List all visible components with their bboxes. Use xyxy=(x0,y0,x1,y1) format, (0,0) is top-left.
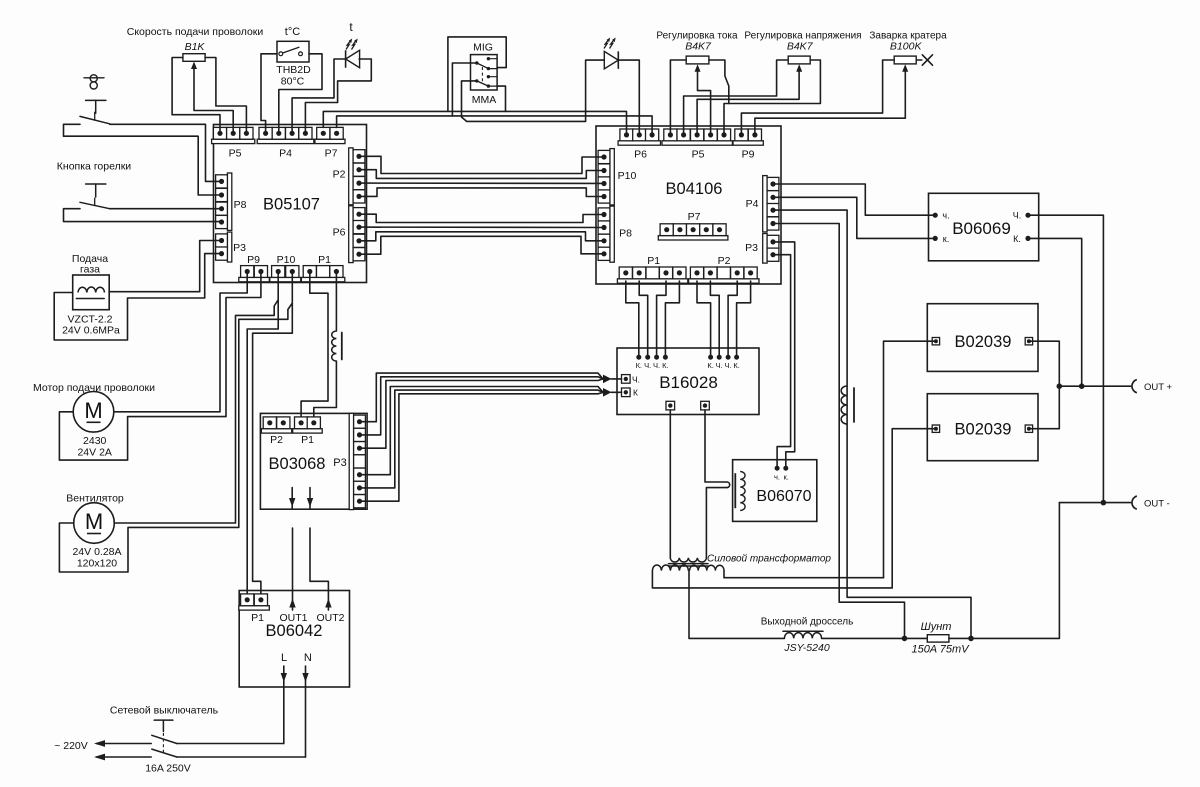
torch symbol (two circles) xyxy=(84,75,104,89)
wire B02039 lower input from secondary xyxy=(892,429,936,588)
wire transformer center tap to choke xyxy=(689,571,784,639)
svg-text:Кнопка горелки: Кнопка горелки xyxy=(57,161,132,173)
output choke JSY-5240 xyxy=(783,631,830,654)
LED MIG/MMA indicator xyxy=(604,38,618,69)
wire gas valve return loop to P3.2 xyxy=(54,254,221,340)
wire B06069 К to OUT+ node xyxy=(1028,238,1082,386)
torch button pole 2 (switch) xyxy=(80,184,110,209)
svg-text:B05107: B05107 xyxy=(263,196,320,214)
cable arrow into B16028 Ч xyxy=(603,375,622,384)
svg-text:B1K: B1K xyxy=(185,41,206,53)
wire B1K right terminal to P5.3 xyxy=(205,58,246,134)
potentiometer B4K7 (current) xyxy=(685,41,712,72)
connector P1 (B04106) with label xyxy=(617,255,687,283)
connector P2 (B04106) with label xyxy=(689,255,759,283)
svg-text:B06070: B06070 xyxy=(756,488,811,505)
fan motor M with ratings xyxy=(72,503,121,570)
wire B05107 P7.2 to B04106 P6.3 xyxy=(337,116,652,135)
board B16028 xyxy=(617,348,759,415)
wire bundle P6-P8 line 2 xyxy=(359,226,604,228)
svg-text:P1: P1 xyxy=(301,434,314,446)
svg-text:P9: P9 xyxy=(247,254,260,266)
label Скорость подачи проволоки xyxy=(127,26,264,38)
svg-text:B06042: B06042 xyxy=(266,622,323,640)
wire current sense P4.3 to shunt right xyxy=(773,210,971,638)
wire B4K7-U left to P5.2 xyxy=(684,60,789,135)
wire torch switch 1 contact to P8.1 xyxy=(110,124,222,181)
svg-text:P10: P10 xyxy=(277,254,296,266)
svg-text:MMA: MMA xyxy=(472,94,497,106)
shunt 150A 75mV xyxy=(911,635,970,656)
thermostat THB2D with t°C and 80°C labels xyxy=(276,26,311,88)
B02039 lower left pin xyxy=(932,425,939,432)
wire B100K wiper to P9.2 xyxy=(755,69,905,135)
inductor ferrite bar xyxy=(341,333,343,360)
connector P5 (B05107) with label xyxy=(212,127,255,159)
power transformer primary winding xyxy=(670,558,706,562)
B16028 top pins group 1 with К.Ч.Ч.К. labels xyxy=(636,355,669,370)
wire current sense P4.4 to shunt left xyxy=(773,224,905,639)
B16028 bottom pin 1 xyxy=(666,401,675,410)
wire P9.1 to wire feed motor + xyxy=(114,274,247,412)
svg-text:B4K7: B4K7 xyxy=(787,41,814,53)
connector P3 (B05107) with label xyxy=(216,232,246,262)
svg-text:N: N xyxy=(304,652,312,664)
svg-text:газа: газа xyxy=(80,264,100,276)
B06042 OUT1 input arrow with label xyxy=(279,528,307,624)
mains arrow 1 xyxy=(94,740,151,747)
inductor ferrite bar (sense wire) xyxy=(853,388,855,422)
module B02039 upper xyxy=(927,304,1038,372)
svg-text:M: M xyxy=(84,398,102,423)
junction dot OUT- xyxy=(1101,500,1107,506)
mains switch 16A 250V xyxy=(145,720,191,774)
svg-text:B03068: B03068 xyxy=(269,455,326,473)
wire mains N to switch xyxy=(177,756,306,758)
svg-text:P1: P1 xyxy=(647,255,660,267)
wire MIG/MMA MMA contact down xyxy=(497,86,505,111)
svg-text:P3: P3 xyxy=(745,242,758,254)
svg-text:B02039: B02039 xyxy=(955,333,1012,351)
svg-text:Ч.: Ч. xyxy=(644,361,651,370)
wire B04106 P3.2 to B06070 ч xyxy=(773,255,791,469)
label Кнопка горелки xyxy=(57,161,132,173)
B06042 OUT2 input arrow with label xyxy=(310,528,345,624)
wire B04106 P3.1 to B06070 к xyxy=(773,242,795,468)
svg-text:P2: P2 xyxy=(718,255,731,267)
label Мотор подачи проволоки xyxy=(33,382,155,394)
svg-text:к.: к. xyxy=(943,234,949,244)
svg-text:OUT1: OUT1 xyxy=(279,612,307,624)
connector P7 (B04106) with label xyxy=(658,211,728,240)
svg-text:B02039: B02039 xyxy=(955,421,1012,439)
junction dot OUT+ B06069 xyxy=(1079,383,1085,389)
svg-text:к.: к. xyxy=(784,473,789,482)
connector P2 (B03068) with label xyxy=(261,417,291,446)
junction dot shunt right xyxy=(968,636,974,642)
wire B02039 lower output to OUT+ node xyxy=(1029,386,1059,429)
B02039 lower right pin xyxy=(1025,425,1032,432)
label Заварка кратера xyxy=(869,30,947,41)
module B02039 lower xyxy=(927,394,1038,461)
svg-text:Ч.: Ч. xyxy=(632,374,640,384)
power transformer core xyxy=(669,564,709,566)
wire B1K wiper to P5.2 xyxy=(194,69,233,134)
svg-text:К.: К. xyxy=(1013,234,1021,244)
board B06069 xyxy=(929,193,1039,260)
wire LED t anode to P4.4 xyxy=(305,59,371,133)
svg-text:Сетевой выключатель: Сетевой выключатель xyxy=(110,705,219,717)
wire B05107 P1.1 to B03068 P1.1 xyxy=(301,274,328,416)
svg-text:THB2D: THB2D xyxy=(276,64,311,76)
wire P5.5 bus xyxy=(724,60,820,135)
svg-text:ч.: ч. xyxy=(942,211,949,221)
svg-text:К: К xyxy=(633,388,638,398)
wire torch switch 2 contact to P8.3 xyxy=(110,208,222,210)
LED t (wire feed indicator) with label xyxy=(346,20,360,68)
wire P10.1 branch to B06042 P1.1 xyxy=(247,300,278,594)
svg-text:B16028: B16028 xyxy=(659,373,718,392)
svg-text:К.: К. xyxy=(662,361,668,370)
B06070 top pins ч к xyxy=(774,466,789,482)
svg-text:24V 2A: 24V 2A xyxy=(77,447,111,459)
svg-text:Силовой трансформатор: Силовой трансформатор xyxy=(707,553,831,565)
connector P4 (B05107) with label xyxy=(257,127,314,159)
B02039 upper left pin xyxy=(932,338,939,345)
label ~ 220V xyxy=(54,740,88,752)
svg-text:JSY-5240: JSY-5240 xyxy=(783,642,829,654)
wire B4K7-I right to P5.5 bus xyxy=(709,60,729,104)
wire B03068 P3.1 bundle xyxy=(360,373,604,422)
svg-text:B06069: B06069 xyxy=(952,219,1011,238)
svg-text:Скорость подачи проволоки: Скорость подачи проволоки xyxy=(127,26,264,38)
wire P2.4 to B16028 xyxy=(728,281,737,357)
svg-text:B100K: B100K xyxy=(890,41,923,53)
label Сетевой выключатель xyxy=(110,705,219,717)
svg-text:P5: P5 xyxy=(229,148,242,160)
wire bundle P2-P10 line 2 xyxy=(359,170,604,179)
B06042 N output arrow with label xyxy=(302,652,312,757)
power transformer secondary winding xyxy=(652,565,724,571)
wire mains L to switch xyxy=(177,743,284,745)
svg-text:К.: К. xyxy=(707,361,713,370)
connector P1 (B05107) with label xyxy=(301,254,344,282)
board B04106 xyxy=(596,126,781,284)
switch MIG/MMA with labels xyxy=(471,42,498,107)
svg-text:P1: P1 xyxy=(318,254,331,266)
svg-text:80°C: 80°C xyxy=(281,76,305,88)
wire P1.4 to B16028 xyxy=(657,281,666,357)
wire P9.2 to wire feed motor return loop xyxy=(59,274,261,460)
svg-text:P1: P1 xyxy=(251,612,264,624)
connector P10 (B04106) with label xyxy=(598,149,636,205)
inductor on current sense wire xyxy=(841,386,847,424)
wire B05107 P7.1 to B04106 P6.1 xyxy=(323,111,626,134)
wire B03068 P3.5 bundle xyxy=(360,387,604,475)
board B06042 xyxy=(239,591,349,688)
svg-text:M: M xyxy=(85,509,103,534)
svg-text:24V 0.28A: 24V 0.28A xyxy=(72,546,121,558)
wire bundle P6-P8 line 3 xyxy=(359,232,604,241)
connector P9 (B04106) with label xyxy=(733,129,763,161)
connector P3 (B04106) with label xyxy=(745,234,779,264)
B06070 sensor coil with core bar xyxy=(735,472,745,511)
label Регулировка тока xyxy=(656,30,738,41)
svg-text:B4K7: B4K7 xyxy=(685,41,712,53)
wire transformer secondary right end xyxy=(724,571,884,578)
svg-text:Ч.: Ч. xyxy=(1013,211,1022,221)
wire torch switch 2 pole return to P8.4 xyxy=(64,209,222,222)
connector P6 (B05107) with label xyxy=(333,206,365,263)
wire MIG/MMA pole 1 xyxy=(452,63,476,116)
wire choke to shunt xyxy=(822,637,928,639)
wire bundle P6-P8 line 4 xyxy=(359,236,604,254)
connector P10 (B05107) with label xyxy=(270,254,301,282)
wire transformer secondary left end xyxy=(652,571,892,588)
svg-text:Ч.: Ч. xyxy=(716,361,723,370)
connector P2 (B05107) with label xyxy=(333,148,365,205)
svg-text:Шунт: Шунт xyxy=(921,621,952,633)
wire B02039 upper output to OUT+ node xyxy=(1029,341,1059,386)
svg-text:t°C: t°C xyxy=(285,26,300,38)
wire P1.2 to B16028 xyxy=(639,281,648,357)
svg-text:B04106: B04106 xyxy=(666,180,723,198)
label Выходной дроссель xyxy=(761,617,854,628)
svg-text:P5: P5 xyxy=(692,149,705,161)
wire B1K left terminal to P5.1 xyxy=(172,58,220,134)
svg-text:120x120: 120x120 xyxy=(77,558,117,570)
label Подача газа xyxy=(72,253,108,276)
svg-text:P8: P8 xyxy=(619,228,632,240)
wire gas valve coil to P3.1 xyxy=(109,241,221,292)
wire bundle P2-P10 line 4 xyxy=(359,188,604,197)
wire B06069 Ч to OUT- node xyxy=(1028,215,1103,502)
connector P1 (B03068) with label xyxy=(293,417,323,446)
svg-text:24V 0.6MPa: 24V 0.6MPa xyxy=(62,325,120,337)
gas valve VZCT-2.2 with labels xyxy=(62,275,120,337)
wire P2.5 to B16028 xyxy=(737,281,751,357)
svg-text:P9: P9 xyxy=(742,149,755,161)
wire P1.5 to B16028 xyxy=(665,281,679,357)
wire B02039 upper input from secondary xyxy=(884,341,936,578)
B02039 upper right pin xyxy=(1025,338,1032,345)
board B05107 xyxy=(214,125,367,283)
label Регулировка напряжения xyxy=(744,30,861,41)
svg-text:Ч.: Ч. xyxy=(725,361,732,370)
wire bundle P2-P10 line 1 xyxy=(359,156,604,173)
wire OUT+ bus xyxy=(1059,385,1130,387)
junction dot OUT+ modules xyxy=(1057,383,1063,389)
svg-text:16A 250V: 16A 250V xyxy=(145,763,191,775)
wire B03068 P3.7 bundle xyxy=(360,392,604,501)
torch button pole 1 (switch) xyxy=(80,100,110,123)
svg-text:P7: P7 xyxy=(325,148,338,160)
wire B16028 bottom pin2 through current sensor to primary xyxy=(705,410,730,558)
wire bundle P2-P10 line 3 xyxy=(359,182,604,184)
label Вентилятор xyxy=(66,493,124,505)
connector P7 (B05107) with label xyxy=(315,127,345,159)
svg-text:К.: К. xyxy=(636,361,642,370)
svg-text:~ 220V: ~ 220V xyxy=(54,740,88,752)
connector P5 (B04106) with label xyxy=(662,129,732,161)
wire B16028 bottom pin1 to transformer primary xyxy=(669,410,671,558)
svg-text:P4: P4 xyxy=(746,198,759,210)
wire B4K7-U wiper to P5.3 xyxy=(697,69,799,135)
svg-text:OUT2: OUT2 xyxy=(316,612,344,624)
B06069 right pin Ч xyxy=(1013,211,1031,221)
svg-text:P6: P6 xyxy=(634,149,647,161)
svg-text:OUT -: OUT - xyxy=(1144,498,1170,509)
wire OUT- bus xyxy=(1059,502,1130,504)
B03068 output arrow 1 (down) xyxy=(289,488,295,508)
wire LED t cathode to P4.3 xyxy=(292,59,346,133)
connector P8 (B04106) with label xyxy=(598,206,632,262)
wire LED cathode to B04106 P6.2 xyxy=(618,60,639,135)
svg-text:P10: P10 xyxy=(618,170,637,182)
svg-text:P7: P7 xyxy=(688,211,701,223)
svg-text:OUT +: OUT + xyxy=(1144,382,1173,393)
connector P8 (B05107) with label xyxy=(216,173,247,230)
connector P3 (B03068) with label xyxy=(333,413,365,509)
wire B4K7-I wiper to P5.4 xyxy=(698,69,711,135)
B06042 L output arrow with label xyxy=(281,652,287,744)
wire THB2D left to P4.1 xyxy=(261,54,277,134)
potentiometer B100K with unconnected X terminal xyxy=(890,41,933,72)
wire P1.1 to B16028 xyxy=(626,281,639,357)
svg-text:150A 75mV: 150A 75mV xyxy=(911,644,970,656)
wire feed motor M with ratings xyxy=(73,392,114,459)
wire P4.1 to B06069 ч xyxy=(773,184,935,215)
wire B03068 P3.3 bundle xyxy=(360,379,604,448)
connector P6 (B04106) with label xyxy=(618,129,660,161)
svg-text:Ч.: Ч. xyxy=(653,361,660,370)
svg-text:P2: P2 xyxy=(270,434,283,446)
svg-text:P2: P2 xyxy=(333,169,346,181)
wire B100K left to P9.1 xyxy=(741,60,894,135)
svg-text:Выходной дроссель: Выходной дроссель xyxy=(761,617,854,628)
B06069 left pin ч xyxy=(933,211,950,221)
board B06070 (current sensor) xyxy=(733,460,817,522)
svg-text:P4: P4 xyxy=(279,148,292,160)
connector P4 (B04106) with label xyxy=(746,176,779,232)
connector P1 (B06042) with label xyxy=(239,594,269,624)
svg-text:MIG: MIG xyxy=(473,42,493,54)
board B03068 xyxy=(260,413,367,509)
B03068 output arrow 2 (down) xyxy=(307,488,313,508)
wire torch switch 1 pole return to P8.2 xyxy=(64,124,222,195)
wire MIG/MMA selector loop (MIG contact) xyxy=(448,37,506,112)
svg-text:P3: P3 xyxy=(333,457,346,469)
wire B03068 P3.6 bundle xyxy=(360,390,604,488)
label Шунт xyxy=(921,621,952,633)
wire P10.2 branch to B06042 P1.2 xyxy=(253,303,293,593)
svg-text:P8: P8 xyxy=(234,199,247,211)
wire THB2D right to P4.2 xyxy=(279,54,322,134)
wire bundle P6-P8 line 1 xyxy=(359,214,604,222)
OUT+ terminal with label xyxy=(1132,380,1173,393)
wire P2.1 to B16028 xyxy=(697,281,711,357)
cable arrow into B16028 К xyxy=(603,388,622,397)
label Силовой трансформатор xyxy=(707,553,831,565)
B16028 top pins group 2 with К.Ч.Ч.К. labels xyxy=(707,355,739,370)
mains arrow 2 xyxy=(94,754,151,761)
wire B4K7-I left to P5.1 xyxy=(670,60,686,135)
wire P10.2 to fan return loop xyxy=(59,274,292,572)
wire P2.2 to B16028 xyxy=(710,281,719,357)
svg-text:ч.: ч. xyxy=(774,473,780,482)
wire B03068 P3.2 bundle xyxy=(360,377,604,435)
wire B05107 P1.2 through inductor to B03068 P1.2 xyxy=(314,274,337,416)
svg-text:К.: К. xyxy=(733,361,739,370)
B16028 left pin К xyxy=(622,388,639,398)
potentiometer B1K xyxy=(183,41,206,69)
B16028 left pin Ч xyxy=(622,374,641,384)
svg-text:2430: 2430 xyxy=(83,435,107,447)
svg-text:P6: P6 xyxy=(333,227,346,239)
OUT- terminal with label xyxy=(1132,496,1170,509)
svg-text:P3: P3 xyxy=(233,242,246,254)
wire P10.1 to fan + xyxy=(114,274,278,523)
svg-text:L: L xyxy=(281,652,287,664)
junction dot shunt left xyxy=(902,636,908,642)
B06069 left pin к xyxy=(933,234,950,244)
wire shunt to OUT- riser xyxy=(949,503,1060,639)
wire P4.2 to B06069 к xyxy=(773,197,935,238)
connector P9 (B05107) with label xyxy=(239,254,269,282)
B16028 bottom pin 2 xyxy=(701,401,710,410)
B06069 right pin К xyxy=(1013,234,1030,244)
potentiometer B4K7 (voltage) xyxy=(787,41,814,72)
wire MIG/MMA pole 2 to LED anode xyxy=(462,60,605,121)
